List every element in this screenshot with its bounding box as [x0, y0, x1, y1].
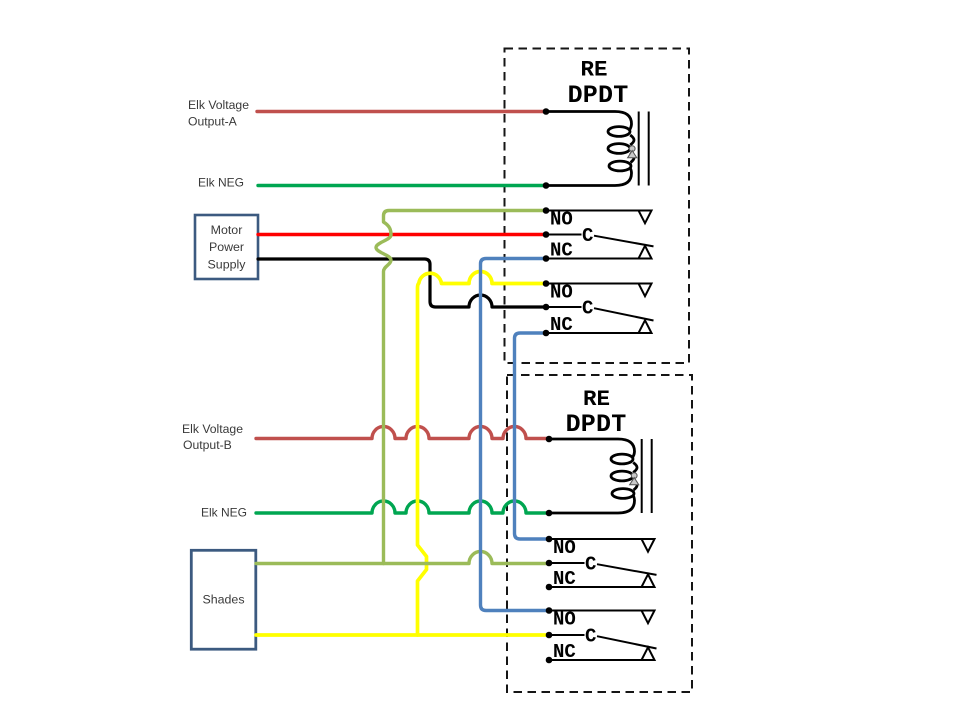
svg-text:C: C [582, 298, 593, 320]
svg-text:Elk Voltage: Elk Voltage [188, 98, 249, 112]
svg-text:NC: NC [553, 568, 576, 590]
svg-text:RE: RE [583, 386, 610, 412]
svg-text:NO: NO [553, 537, 576, 559]
svg-text:C: C [582, 225, 593, 247]
svg-text:C: C [585, 554, 596, 576]
svg-text:DPDT: DPDT [566, 410, 627, 439]
svg-text:Elk NEG: Elk NEG [198, 176, 244, 190]
svg-text:Elk NEG: Elk NEG [201, 506, 247, 520]
svg-text:Motor: Motor [211, 223, 243, 237]
svg-text:NC: NC [550, 314, 573, 336]
svg-text:Supply: Supply [208, 257, 247, 271]
svg-text:DPDT: DPDT [568, 81, 629, 110]
svg-text:RE: RE [580, 57, 607, 83]
svg-text:Shades: Shades [202, 593, 244, 607]
svg-text:Elk Voltage: Elk Voltage [182, 422, 243, 436]
svg-text:Power: Power [209, 240, 244, 254]
svg-text:C: C [585, 626, 596, 648]
svg-text:NO: NO [550, 209, 573, 231]
svg-text:Output-B: Output-B [183, 438, 232, 452]
svg-text:NO: NO [553, 609, 576, 631]
svg-text:NO: NO [550, 282, 573, 304]
svg-text:NC: NC [550, 240, 573, 262]
svg-text:NC: NC [553, 641, 576, 663]
svg-text:Output-A: Output-A [188, 115, 238, 129]
